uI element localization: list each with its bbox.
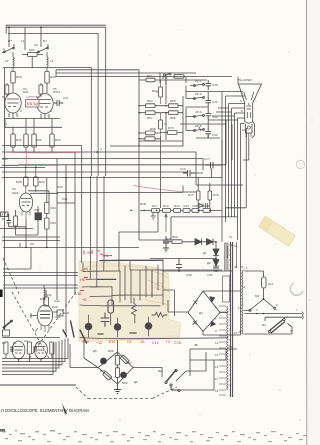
labels row — [152, 193, 219, 208]
winding W3 taps — [219, 306, 226, 395]
wire hand mid horiz — [97, 279, 116, 281]
resistor vert right — [50, 342, 54, 354]
svg-text:13: 13 — [238, 306, 242, 310]
arrow under row — [165, 214, 167, 232]
wire crt base drop — [243, 128, 249, 160]
svg-text:R7: R7 — [8, 39, 12, 43]
wire hand grid — [112, 260, 163, 305]
wire kp rows — [186, 86, 243, 99]
RED_ANNOTATIONS — [5, 97, 183, 192]
winding W3 heater loops — [227, 306, 228, 390]
magenta vertical x26 — [25, 152, 27, 164]
svg-text:С9: С9 — [30, 242, 34, 246]
wire rect block — [179, 242, 216, 259]
tube V2 6N8 — [37, 305, 52, 326]
svg-text:Д3: Д3 — [199, 311, 203, 315]
svg-text:4В: 4В — [194, 343, 198, 347]
fuse Pr1 — [262, 277, 267, 288]
trimmer KP-5 — [186, 127, 204, 131]
bridge diamond — [188, 291, 220, 332]
svg-text:R44: R44 — [2, 157, 8, 161]
svg-text:R34: R34 — [46, 293, 52, 297]
capacitor small b — [34, 346, 36, 352]
wire right of neck — [252, 122, 255, 139]
mains end arcs — [302, 312, 303, 320]
wire hand extra horiz — [90, 295, 163, 297]
svg-text:ЕЧ·ЦУ: ЕЧ·ЦУ — [27, 101, 40, 106]
svg-text:R26: R26 — [29, 48, 35, 52]
wire tube tops — [13, 83, 47, 93]
wire hand verticals — [83, 263, 119, 287]
diode D3a — [210, 297, 216, 303]
winding inner line — [236, 242, 238, 268]
svg-text:Е19: Е19 — [109, 340, 115, 344]
svg-text:R32: R32 — [16, 138, 22, 142]
wire tube V6 bottom net — [0, 218, 38, 247]
capacitor C41 — [206, 97, 212, 107]
wire top feed — [84, 340, 118, 368]
capacitor C right of V5 — [54, 100, 63, 106]
svg-text:R34: R34 — [36, 138, 42, 142]
small box top row — [174, 75, 184, 79]
resistor R31 (vert) — [11, 134, 15, 147]
svg-text:+4: +4 — [80, 269, 84, 273]
svg-text:24: 24 — [240, 265, 244, 269]
svg-text:С43: С43 — [212, 133, 218, 137]
wire row line — [140, 210, 222, 241]
svg-text:С1Х: С1Х — [82, 340, 90, 344]
svg-text:С32: С32 — [34, 208, 40, 212]
svg-text:C2: C2 — [34, 43, 38, 47]
svg-text:R99: R99 — [122, 381, 128, 385]
inductor L4 — [47, 52, 48, 71]
winding W2 box — [223, 276, 230, 302]
switch B4 double bar — [269, 320, 285, 334]
svg-text:С1: С1 — [127, 340, 132, 344]
svg-text:Мб: Мб — [255, 294, 259, 298]
svg-text:С42: С42 — [212, 115, 218, 119]
svg-text:6П1: 6П1 — [23, 90, 29, 94]
wire bus y165 — [2, 164, 226, 167]
wire bridge left link — [168, 300, 188, 312]
dashed linkage — [3, 258, 177, 399]
svg-text:L4: L4 — [21, 39, 25, 43]
svg-text:R70: R70 — [168, 126, 174, 130]
svg-text:C11: C11 — [63, 96, 69, 100]
svg-text:В4: В4 — [262, 323, 266, 327]
switch S1b — [36, 44, 48, 53]
wire vertical x82 from corner — [81, 145, 83, 263]
punch hole upper — [296, 160, 304, 168]
tape patch small diagonal (right) — [258, 216, 295, 246]
capacitor C48 — [163, 236, 169, 248]
wire vertical x139 low — [139, 212, 172, 240]
page right edge — [305, 0, 307, 445]
tape patch large (center) — [79, 261, 181, 342]
svg-text:R7: R7 — [43, 39, 47, 43]
svg-text:-1Б: -1Б — [76, 292, 82, 296]
node dots — [9, 26, 41, 28]
capacitor C16 — [183, 170, 195, 177]
wire bus y158.5 — [2, 159, 203, 170]
bottom noise band — [2, 430, 307, 442]
node dots chain — [139, 106, 166, 139]
svg-text:Д2: Д2 — [207, 261, 211, 265]
svg-text:L4: L4 — [50, 59, 54, 63]
diode D3b — [211, 321, 216, 327]
resistor small right — [39, 85, 43, 94]
svg-text:19: 19 — [215, 389, 219, 393]
svg-text:+Б: +Б — [82, 298, 87, 302]
CRT internal electrodes — [244, 92, 254, 118]
svg-text:Тр: Тр — [229, 235, 233, 239]
wire to diamond left — [70, 344, 98, 368]
svg-text:Л2: Л2 — [36, 341, 40, 345]
wire CRT left pins staircase — [226, 96, 245, 291]
resistor on edge (rot) — [120, 355, 129, 364]
wire vertical x119 — [119, 212, 158, 263]
dashed bottom linkage — [76, 387, 177, 399]
label CRT pins — [240, 92, 256, 132]
resistor R33 (vert) — [50, 134, 54, 147]
left edge black tick — [0, 290, 3, 298]
svg-text:L3: L3 — [5, 59, 9, 63]
potentiometer R68 (vert) — [159, 120, 163, 129]
svg-text:41: 41 — [234, 244, 238, 248]
svg-text:С41: С41 — [212, 100, 218, 104]
ground under row — [151, 213, 157, 220]
svg-text:R33: R33 — [55, 138, 61, 142]
trimmer KP-1 — [190, 83, 204, 86]
svg-text:-1Б: -1Б — [139, 340, 145, 344]
svg-text:R17: R17 — [188, 193, 194, 197]
svg-text:С01: С01 — [62, 197, 68, 201]
CHAIN_TRIMMERS — [139, 70, 243, 212]
capacitor C50 — [213, 266, 219, 271]
svg-text:6П14: 6П14 — [53, 90, 60, 94]
resistor R65 (horiz) — [169, 104, 179, 108]
magenta scribble at red box — [26, 97, 40, 98]
svg-text:17: 17 — [215, 377, 219, 381]
svg-text:R40: R40 — [39, 180, 45, 184]
wire buses y272-288 — [3, 273, 78, 288]
wire vertical riser x91 — [90, 68, 92, 176]
MIDLEFT_BLOCK — [0, 152, 97, 247]
resistor on edge 2 (rot) — [103, 371, 112, 380]
wire bus y167 — [0, 166, 45, 168]
svg-text:Д5: Д5 — [93, 349, 97, 353]
svg-text:10: 10 — [242, 128, 246, 132]
svg-text:R62: R62 — [152, 89, 158, 93]
wire bus y152 — [2, 152, 196, 185]
potentiometer R62 (vert) — [159, 87, 163, 97]
punch hole lower (crescent) — [290, 283, 303, 295]
resistor hand R (vert) — [108, 300, 114, 313]
resistor R71 double (horiz) — [145, 137, 155, 141]
resistor R69 (horiz) — [146, 131, 156, 135]
svg-text:НЕ: НЕ — [80, 278, 86, 282]
svg-text:АВ: АВ — [228, 345, 232, 349]
svg-text:АЧХ: АЧХ — [57, 185, 63, 189]
wire hand heavy top — [100, 259, 163, 261]
svg-text:21: 21 — [238, 330, 242, 334]
svg-text:R67: R67 — [147, 116, 153, 120]
svg-text:R14: R14 — [174, 204, 180, 208]
wire vertical riser x98 — [97, 34, 99, 176]
svg-text:Д1: Д1 — [203, 251, 207, 255]
svg-text:КР-2: КР-2 — [195, 92, 202, 96]
diode hand with ball — [85, 323, 92, 330]
svg-text:R18: R18 — [16, 75, 22, 79]
svg-text:Д6: Д6 — [134, 380, 138, 384]
winding primary loops — [242, 270, 243, 334]
svg-text:10: 10 — [234, 331, 238, 335]
svg-text:13: 13 — [215, 353, 219, 357]
wire bus y185 y192 — [57, 141, 243, 208]
wire chain bottom — [139, 141, 183, 146]
wire primary top tap to fuse — [245, 271, 264, 277]
wire bus y145 — [2, 141, 183, 146]
magenta trace y152 — [5, 152, 97, 153]
svg-text:R18: R18 — [213, 193, 219, 197]
svg-text:С5: С5 — [24, 339, 28, 343]
resistor vert mid — [27, 342, 31, 354]
svg-text:КР-4: КР-4 — [195, 110, 202, 114]
wire tube top net — [28, 191, 58, 203]
svg-text:+9: +9 — [86, 251, 90, 255]
resistor R18 (vert) — [208, 191, 212, 200]
resistor vert far left — [4, 342, 8, 354]
svg-text:Др: Др — [230, 243, 234, 247]
svg-text:R13: R13 — [163, 204, 169, 208]
svg-text:12: 12 — [242, 285, 246, 289]
switch arm left heavy — [3, 321, 12, 329]
wire resistor bottoms to bus — [13, 147, 52, 152]
transistor ball 3 — [145, 323, 152, 330]
wire heavy bottom line — [0, 384, 76, 386]
wire corner x31 — [3, 247, 31, 269]
resistor center vert 2 — [115, 368, 119, 378]
wire y258 y271 rect block — [150, 258, 232, 271]
capacitor C40 — [206, 80, 212, 90]
magenta trace y165 — [18, 164, 60, 166]
wire bridge bottom link — [203, 332, 241, 336]
svg-text:R64: R64 — [147, 99, 153, 103]
transistor ball 2 — [114, 324, 121, 331]
svg-text:R61: R61 — [147, 74, 153, 78]
resistor center vert 1 — [115, 356, 119, 366]
svg-text:R4В: R4В — [204, 204, 210, 208]
wire y217 bus — [171, 217, 238, 240]
capacitor hand C (plates) — [101, 313, 109, 327]
svg-text:R17: R17 — [152, 204, 158, 208]
svg-text:А01: А01 — [55, 315, 61, 319]
resistor R41 (vert) — [45, 203, 49, 214]
resistor hand squiggle — [132, 298, 137, 323]
wire bus y237 y247 — [2, 237, 139, 247]
red tick marks — [80, 250, 112, 291]
svg-text:R90: R90 — [166, 237, 172, 241]
svg-text:R1Б: R1Б — [140, 202, 146, 206]
faint pale circuit under patch — [145, 268, 169, 306]
diode D1 — [195, 239, 202, 245]
resistor R67 (horiz) — [146, 111, 156, 115]
resistor R61 (horiz) — [146, 78, 155, 82]
wire bus y172 — [2, 171, 188, 173]
svg-text:R97: R97 — [126, 361, 132, 365]
tube V4 — [5, 93, 21, 113]
wire hand right links — [160, 270, 222, 316]
node dots — [26, 152, 97, 247]
resistor hand horiz right — [152, 313, 167, 318]
svg-text:R38: R38 — [16, 180, 22, 184]
wire switch B1k leads — [133, 352, 214, 390]
ROW_RESISTORS mid — [131, 178, 222, 242]
potentiometer left hatched — [1, 212, 9, 217]
svg-text:R42: R42 — [51, 221, 57, 225]
resistor R34 (vert) — [32, 134, 36, 147]
svg-text:КР-1: КР-1 — [195, 79, 202, 83]
svg-text:С7Б: С7Б — [174, 341, 182, 345]
wire bridge right link — [220, 312, 228, 314]
svg-text:11: 11 — [215, 341, 218, 345]
wire hand bottoms — [80, 271, 228, 338]
trimmer KP-4 — [186, 115, 204, 117]
labels top-left — [5, 39, 61, 142]
dashed V left arm — [12, 292, 50, 360]
svg-text:С1У: С1У — [152, 341, 160, 345]
CRT V10 funnel — [239, 84, 262, 122]
wire cap connections — [195, 120, 232, 178]
tube V1a — [12, 341, 25, 359]
wire mains line — [245, 314, 303, 318]
wire kp4/5 network — [180, 107, 226, 138]
tube V1b — [35, 341, 48, 359]
svg-text:R34: R34 — [40, 297, 46, 301]
resistor R90 (horiz) — [172, 240, 182, 244]
bridge diamond small — [98, 352, 133, 384]
diode D3c mark — [193, 300, 198, 305]
svg-text:3,4к: 3,4к — [54, 299, 60, 303]
svg-text:R96: R96 — [108, 349, 114, 353]
wire bus y177 — [2, 177, 222, 179]
CRT neck base — [245, 122, 253, 134]
ground label row small text — [13, 297, 138, 384]
labels power — [238, 265, 298, 334]
svg-text:40: 40 — [234, 265, 238, 269]
inductor L3 — [13, 52, 14, 71]
resistor R38 (vert) — [24, 177, 28, 186]
wire below tubes — [5, 117, 62, 134]
svg-text:R90: R90 — [172, 235, 178, 239]
resistor R18 (vert) — [11, 72, 15, 84]
svg-text:С17: С17 — [204, 157, 210, 161]
capacitor C43 — [206, 128, 212, 138]
wire hand extra verticals — [125, 265, 158, 303]
wire bottom return — [245, 324, 293, 335]
svg-text:R66: R66 — [170, 116, 176, 120]
svg-text:В1к: В1к — [158, 369, 164, 373]
svg-text:ГЗ: ГЗ — [166, 340, 170, 344]
resistor row box1 — [152, 209, 160, 213]
resistor R39 (vert) — [14, 216, 18, 226]
resistor R28 (vert) — [45, 72, 49, 84]
resistor R66 (horiz) — [169, 111, 179, 115]
svg-text:С16: С16 — [180, 167, 186, 171]
capacitor C17 — [206, 162, 218, 169]
wire bundle verticals into patch — [90, 176, 104, 263]
resistor R64 (horiz) — [146, 104, 156, 108]
resistor R42 (vert) — [45, 218, 49, 229]
wire box below bridge — [190, 349, 237, 376]
BOTTOMLEFT_BLOCK — [2, 290, 69, 362]
capacitor C31 — [7, 214, 12, 227]
dashed upper diagonal — [3, 258, 20, 296]
svg-text:С48: С48 — [186, 273, 192, 277]
switch arm — [166, 370, 176, 382]
labels transformer taps — [215, 235, 238, 393]
magenta diagonal mid — [133, 186, 183, 193]
diode D6 ball — [121, 372, 127, 378]
resistor row box4 — [183, 209, 190, 213]
wire bridge top link — [203, 291, 241, 335]
wire verticals mid-left — [57, 152, 75, 312]
wire top small comps row y75 — [160, 72, 186, 85]
small box far-left — [3, 330, 10, 336]
switch B1k — [165, 369, 180, 391]
winding W1 HV (grey bar) — [225, 243, 229, 271]
ground C48 — [163, 248, 169, 252]
transformer core — [231, 242, 233, 397]
TRANSFORMER_BLOCK — [219, 242, 245, 397]
wire stubs from bus — [9, 27, 41, 50]
diamond bridge D5/D6 — [84, 340, 133, 394]
wire bottom-left bus bundle — [2, 338, 68, 374]
primary taps — [243, 270, 245, 334]
wire bus y67.5 — [3, 67, 91, 69]
TOPLEFT_BLOCK — [2, 27, 63, 152]
diode D2a vertical — [213, 242, 219, 256]
CRT_BLOCK — [239, 84, 262, 138]
arrow blob on title — [62, 403, 67, 417]
resistor R32 (vert) — [24, 134, 28, 147]
svg-text:R1Б: R1Б — [193, 204, 199, 208]
resistor R26 (horiz) — [28, 53, 38, 57]
node — [263, 298, 265, 300]
labels chain — [147, 74, 218, 171]
svg-text:+12: +12 — [96, 341, 102, 345]
small box right of tube — [57, 310, 63, 316]
wire staircase cap links — [208, 92, 237, 211]
tube V6 6Ж2П — [19, 193, 32, 212]
svg-text:+8: +8 — [96, 249, 100, 253]
diode cluster — [199, 203, 208, 208]
svg-text:R68: R68 — [150, 127, 156, 131]
wire CRT drop x246 — [226, 128, 247, 222]
diode D5 ball — [101, 358, 107, 364]
wire tube side leads — [30, 312, 58, 318]
svg-text:R65: R65 — [170, 99, 176, 103]
svg-text:6Н8: 6Н8 — [52, 305, 58, 309]
wire hand horiz rows — [82, 271, 120, 287]
resistor row box5 — [192, 209, 199, 213]
RECTIFIER_BLOCK — [163, 236, 219, 271]
wire net right of V6 — [2, 178, 75, 241]
svg-text:Л1: Л1 — [13, 341, 17, 345]
resistor R17 (vert) — [196, 191, 200, 200]
resistor R40 (vert) — [34, 177, 38, 186]
svg-text:РН-А95КЧ: РН-А95КЧ — [238, 78, 253, 82]
